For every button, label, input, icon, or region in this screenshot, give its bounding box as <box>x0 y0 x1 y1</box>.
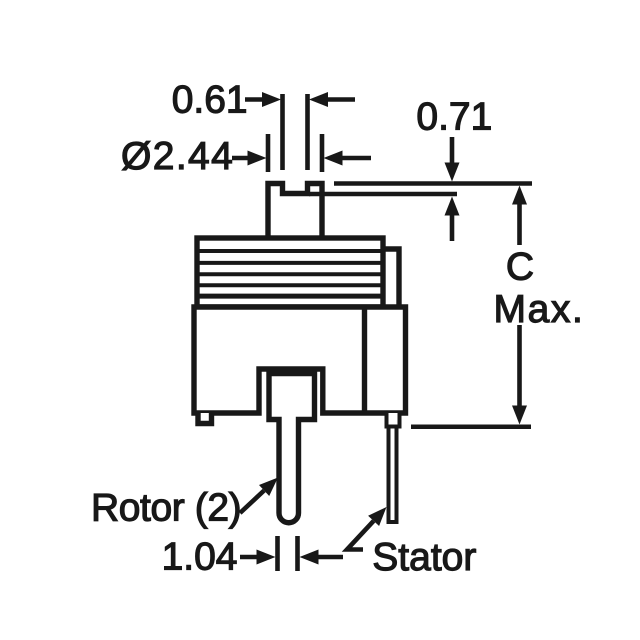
svg-text:1.04: 1.04 <box>162 536 238 579</box>
dim 2.44 right arrow stem <box>340 156 371 161</box>
svg-text:0.71: 0.71 <box>416 96 492 139</box>
svg-text:0.61: 0.61 <box>172 79 248 122</box>
rib line 3 <box>199 272 381 276</box>
extension line 0.61 left <box>280 94 285 170</box>
arrowhead 0.61 right <box>309 92 328 107</box>
dim 0.71 upper arrow stem <box>450 137 455 164</box>
stator shoulder <box>387 413 400 427</box>
arrowhead C max down <box>512 406 527 425</box>
body divider line <box>362 309 367 411</box>
ribbed bushing body <box>197 238 383 307</box>
extension line dia 2.44 right <box>320 134 325 172</box>
main body with bottom notch <box>194 307 406 413</box>
arrowhead 2.44 right <box>324 151 343 166</box>
rotor leader line <box>240 491 264 514</box>
arrowhead rotor leader <box>259 478 278 497</box>
extension line 1.04 left <box>275 536 280 571</box>
right tab on bushing <box>383 249 399 307</box>
dim 0.61 right arrow stem <box>326 97 355 102</box>
dim 0.61 left arrow stem <box>245 97 264 102</box>
arrowhead 0.71 down <box>445 163 460 182</box>
top reference line <box>334 181 532 186</box>
dim 2.44 left arrow stem <box>232 156 250 161</box>
stator pin <box>389 427 397 523</box>
dim C max upper arrow stem <box>517 203 522 245</box>
svg-text:Max.: Max. <box>494 288 585 331</box>
stator leader line <box>347 521 374 550</box>
rib line 2 <box>199 261 381 265</box>
svg-text:C: C <box>506 246 534 289</box>
extension line dia 2.44 left <box>266 134 271 172</box>
svg-text:Ø2.44: Ø2.44 <box>121 135 234 178</box>
arrowhead 1.04 left <box>257 550 276 565</box>
svg-text:Stator: Stator <box>372 536 476 579</box>
left foot <box>198 413 212 424</box>
arrowhead C max up <box>512 186 527 205</box>
arrowhead 1.04 right <box>300 550 319 565</box>
dim 1.04 right arrow stem <box>316 555 343 560</box>
arrowhead 2.44 left <box>248 151 267 166</box>
arrowhead 0.71 up <box>445 197 460 216</box>
rib line 5 <box>199 294 381 299</box>
slot depth reference line <box>309 192 457 197</box>
rotor pin <box>269 374 315 523</box>
arrowhead 0.61 left <box>262 92 281 107</box>
dim 0.71 lower arrow stem <box>450 214 455 242</box>
rib line 4 <box>199 283 381 287</box>
arrowhead stator leader <box>368 507 386 526</box>
extension line 1.04 right <box>295 536 300 571</box>
svg-text:Rotor (2): Rotor (2) <box>91 487 241 530</box>
extension line 0.61 right <box>305 94 310 170</box>
dim C max lower arrow stem <box>517 325 522 406</box>
bottom reference line <box>411 424 531 429</box>
rib line 1 <box>199 249 381 253</box>
dim 1.04 left arrow stem <box>240 555 258 560</box>
shaft with screwdriver slot <box>268 184 322 241</box>
